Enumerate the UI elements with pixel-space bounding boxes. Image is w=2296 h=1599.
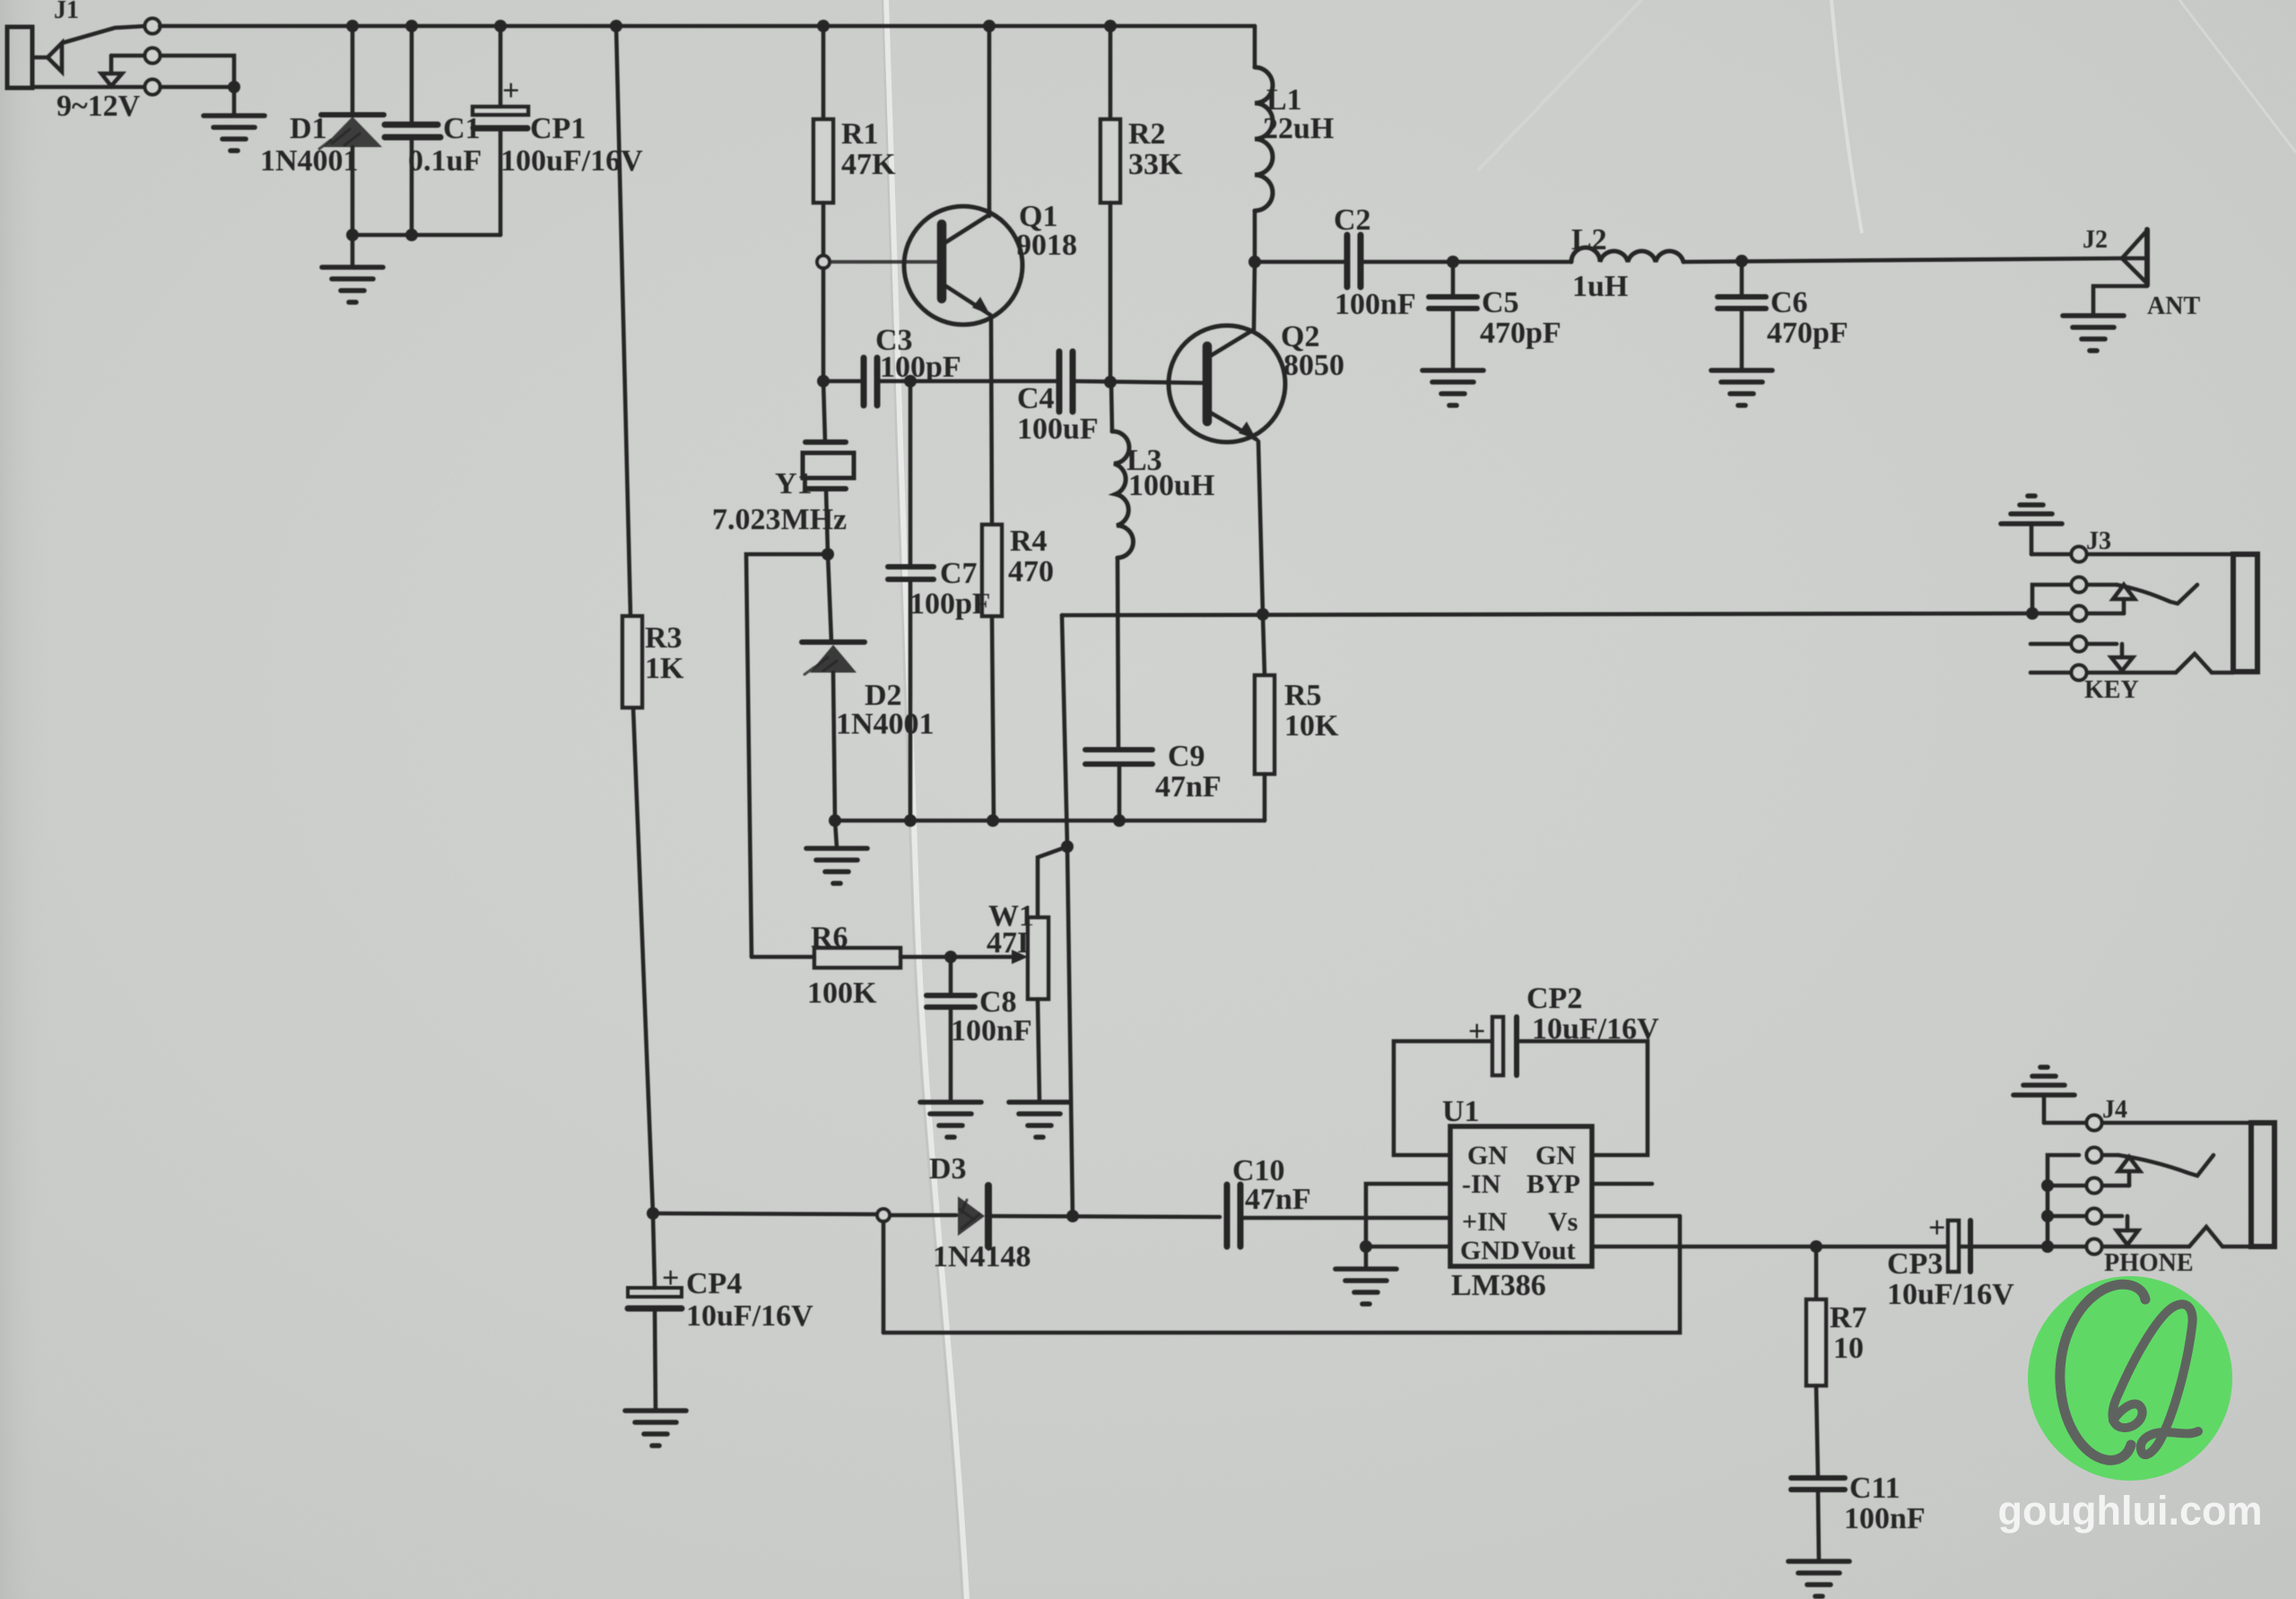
resistor R7 10	[1806, 1247, 1867, 1478]
svg-text:100nF: 100nF	[951, 1014, 1032, 1047]
capacitor C4 100uF	[992, 352, 1204, 446]
svg-text:C11: C11	[1849, 1472, 1900, 1505]
svg-text:BYP: BYP	[1526, 1169, 1580, 1199]
capacitor CP2 10uF/16V electrolytic	[1394, 982, 1659, 1155]
svg-text:100pF: 100pF	[880, 351, 961, 384]
svg-text:100nF: 100nF	[1844, 1502, 1926, 1535]
capacitor C7 100pF	[888, 381, 991, 821]
resistor R1 47K	[813, 26, 896, 255]
svg-text:CP2: CP2	[1526, 982, 1582, 1015]
svg-text:10K: 10K	[1284, 709, 1339, 743]
crystal Y1 7.023MHz	[712, 381, 854, 554]
svg-text:10uF/16V: 10uF/16V	[686, 1299, 813, 1333]
J4 switch contacts	[2041, 1148, 2251, 1255]
svg-text:R1: R1	[841, 117, 879, 151]
svg-text:R5: R5	[1284, 679, 1322, 712]
ground under D1	[322, 267, 383, 302]
wire sidetone feedback to Vs	[883, 1216, 1680, 1333]
node sidetone tap (open circle)	[877, 1209, 890, 1333]
connector J1 power jack	[7, 0, 146, 123]
connector J3 KEY jack	[2031, 524, 2257, 704]
node Q1 base (open circle)	[817, 256, 830, 381]
pin Vs wire	[1592, 1214, 1680, 1219]
connector J4 PHONE jack	[2044, 1095, 2274, 1277]
wire KEY line	[1062, 607, 2039, 621]
svg-text:C4: C4	[1017, 382, 1055, 415]
ground under D2	[806, 848, 867, 883]
resistor R5 10K	[1255, 614, 1339, 821]
diode D1 1N4001	[260, 26, 384, 235]
ground under C5	[1422, 370, 1483, 405]
svg-text:9~12V: 9~12V	[57, 90, 141, 123]
ground under C8	[920, 1102, 981, 1137]
transistor Q2 8050	[1169, 320, 1344, 442]
svg-text:47I: 47I	[987, 926, 1029, 960]
svg-text:+: +	[502, 74, 519, 108]
svg-text:J4: J4	[2102, 1096, 2127, 1124]
capacitor C11 100nF	[1791, 1472, 1926, 1560]
svg-text:470: 470	[1008, 555, 1054, 588]
svg-text:C9: C9	[1168, 740, 1205, 773]
potentiometer W1 47I	[987, 847, 1067, 1101]
svg-text:R6: R6	[811, 921, 848, 954]
wire top supply rail	[160, 20, 1255, 32]
pin BYP stub	[1592, 1182, 1652, 1186]
svg-text:Y1: Y1	[775, 467, 813, 500]
watermark logo circle	[2028, 1276, 2232, 1481]
svg-text:R2: R2	[1128, 117, 1166, 151]
svg-text:C2: C2	[1334, 204, 1371, 237]
ground above J4	[2013, 1067, 2074, 1095]
capacitor C5 470pF	[1429, 256, 1561, 369]
wire ground bus under D1/C1/CP1	[346, 229, 500, 266]
svg-text:CP4: CP4	[686, 1267, 742, 1300]
capacitor CP3 10uF/16V electrolytic	[1887, 1212, 2014, 1311]
svg-text:0.1uF: 0.1uF	[408, 144, 482, 178]
svg-text:R3: R3	[645, 621, 683, 655]
J3 switch contacts	[2031, 578, 2233, 681]
wire oscillator ground rail	[829, 814, 1265, 847]
svg-text:PHONE: PHONE	[2104, 1249, 2194, 1277]
svg-text:LM386: LM386	[1451, 1269, 1546, 1302]
svg-text:7.023MHz: 7.023MHz	[712, 503, 847, 536]
svg-text:47K: 47K	[841, 148, 896, 181]
ground above J3	[2001, 496, 2062, 524]
svg-text:47nF: 47nF	[1155, 770, 1222, 804]
svg-text:+IN: +IN	[1462, 1207, 1508, 1237]
ground under U1	[1335, 1269, 1396, 1304]
svg-text:C5: C5	[1482, 286, 1519, 319]
capacitor C3 100pF	[817, 324, 992, 405]
svg-text:GND: GND	[1460, 1236, 1520, 1265]
svg-text:D1: D1	[290, 112, 327, 145]
svg-text:KEY: KEY	[2084, 676, 2139, 704]
ground under C6	[1711, 370, 1772, 405]
svg-text:CP1: CP1	[530, 112, 586, 145]
svg-text:10uF/16V: 10uF/16V	[1532, 1012, 1659, 1046]
wire KEY vertical to W1 and audio	[1061, 615, 1074, 1216]
wire Q1 collector to rail	[987, 26, 992, 216]
wire audio line	[653, 1210, 1450, 1222]
wire R3 branch column	[616, 26, 653, 1213]
node Y1/D2 junction	[822, 548, 834, 561]
diode D3 1N4148	[929, 1152, 1031, 1273]
svg-text:10: 10	[1833, 1332, 1864, 1365]
capacitor CP1 100uF/16V electrolytic	[473, 26, 643, 235]
svg-text:R4: R4	[1010, 525, 1048, 558]
ground at J1	[204, 116, 265, 151]
svg-text:-IN: -IN	[1462, 1169, 1501, 1199]
capacitor CP4 10uF/16V electrolytic	[628, 1207, 813, 1411]
resistor R6 100K	[752, 921, 1019, 1010]
diode D2 1N4001	[802, 554, 935, 821]
ground under CP4	[625, 1411, 686, 1446]
svg-text:100pF: 100pF	[909, 587, 991, 621]
svg-text:100nF: 100nF	[1335, 288, 1416, 321]
svg-text:1N4148: 1N4148	[933, 1240, 1031, 1273]
svg-text:J2: J2	[2083, 226, 2108, 254]
svg-text:47nF: 47nF	[1245, 1183, 1311, 1216]
inductor L2 1uH	[1453, 223, 1683, 303]
inductor L1 22uH	[1255, 26, 1334, 262]
pin -IN wire	[1366, 1184, 1450, 1247]
svg-text:470pF: 470pF	[1767, 317, 1848, 350]
svg-text:9018: 9018	[1016, 229, 1077, 262]
svg-text:goughlui.com: goughlui.com	[1998, 1488, 2263, 1534]
svg-text:L2: L2	[1571, 223, 1607, 256]
svg-text:1N4001: 1N4001	[260, 144, 359, 178]
pin GND wire and ground	[1360, 1240, 1450, 1268]
capacitor C9 47nF	[1085, 740, 1222, 821]
wire R1 to Q1 base	[830, 260, 938, 264]
resistor R2 33K	[1100, 26, 1183, 381]
svg-text:100K: 100K	[807, 977, 877, 1010]
svg-text:10uF/16V: 10uF/16V	[1887, 1278, 2014, 1311]
svg-text:8050: 8050	[1283, 349, 1344, 382]
svg-text:C6: C6	[1770, 286, 1808, 319]
svg-text:1N4001: 1N4001	[836, 708, 935, 741]
capacitor C6 470pF	[1683, 255, 2122, 369]
svg-text:J3: J3	[2086, 527, 2111, 555]
svg-text:ANT: ANT	[2147, 292, 2200, 320]
svg-text:33K: 33K	[1128, 148, 1183, 181]
svg-text:1uH: 1uH	[1572, 270, 1628, 303]
wire Q2 emitter down to key line	[1258, 441, 1263, 613]
svg-text:100uF: 100uF	[1017, 413, 1099, 446]
svg-text:GN: GN	[1535, 1141, 1576, 1170]
svg-text:22uH: 22uH	[1263, 112, 1334, 145]
svg-text:+: +	[662, 1262, 679, 1295]
svg-text:D3: D3	[929, 1152, 967, 1186]
svg-text:C7: C7	[940, 557, 978, 590]
capacitor C1 0.1uF	[385, 26, 487, 235]
ground at J2	[2063, 316, 2124, 351]
svg-text:U1: U1	[1442, 1095, 1480, 1128]
inductor L3 100uH	[1111, 383, 1214, 750]
connector J2 ANT	[2083, 226, 2200, 320]
resistor R3 1K	[622, 616, 684, 708]
capacitor C10 47nF	[1227, 1154, 1311, 1247]
wire Vout line	[1592, 1240, 2054, 1253]
capacitor C8 100nF	[926, 957, 1032, 1101]
wire Q1 emitter / R4 column	[991, 316, 994, 821]
svg-text:J1: J1	[54, 0, 79, 24]
svg-text:CP3: CP3	[1887, 1247, 1943, 1281]
transistor Q1 9018	[904, 200, 1077, 325]
op-amp U1 LM386	[1442, 1095, 1592, 1302]
J1 contact circles	[145, 19, 161, 95]
svg-text:+: +	[1468, 1015, 1485, 1048]
node L1 / Q2 collector	[1248, 256, 1261, 330]
ground under C11	[1788, 1561, 1849, 1596]
ground under W1	[1009, 1102, 1070, 1137]
svg-text:Vout: Vout	[1521, 1236, 1576, 1265]
wire J1 sleeve bottom	[32, 56, 240, 116]
wire branch to R6	[746, 554, 828, 957]
svg-text:R7: R7	[1830, 1301, 1867, 1334]
svg-text:Vs: Vs	[1548, 1207, 1578, 1237]
resistor R4 470	[982, 525, 1054, 616]
svg-text:470pF: 470pF	[1480, 317, 1561, 350]
svg-text:GN: GN	[1467, 1141, 1508, 1170]
svg-text:100uH: 100uH	[1128, 469, 1214, 502]
svg-text:1K: 1K	[645, 652, 684, 685]
capacitor C2 100nF	[1255, 204, 1453, 321]
svg-text:+: +	[1928, 1212, 1945, 1245]
